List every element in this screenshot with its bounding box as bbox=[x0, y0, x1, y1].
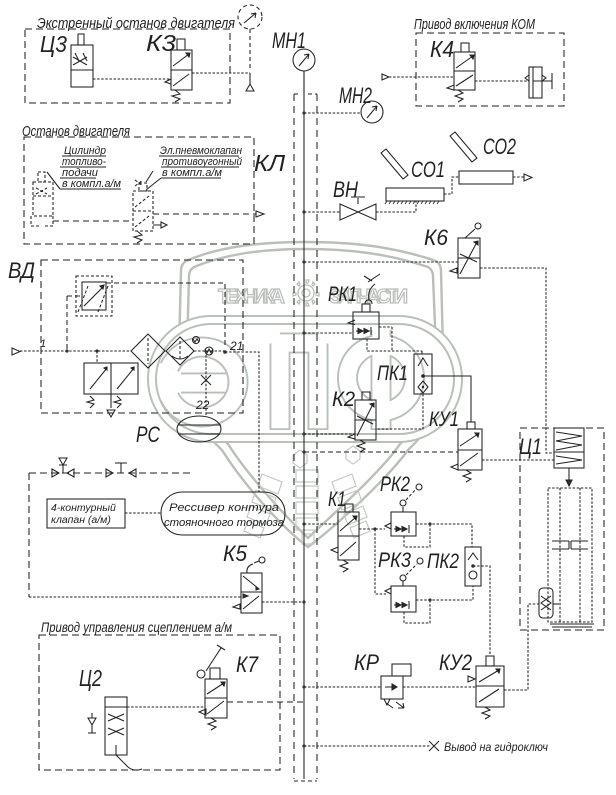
wire supply to К5 bbox=[29, 596, 241, 598]
svg-text:Ц3: Ц3 bbox=[40, 31, 67, 57]
gauge МН1 bbox=[293, 49, 315, 93]
svg-text:Ц1: Ц1 bbox=[519, 434, 542, 459]
valve ВН bbox=[340, 197, 376, 220]
wire ВН to СО1 to СО2 output bbox=[376, 174, 532, 212]
diaphragm valve in Ц1 bbox=[539, 588, 559, 618]
wire КЛ to К1 bbox=[302, 522, 338, 525]
cylinder Ц3 bbox=[71, 34, 93, 87]
valve КУ2 bbox=[468, 656, 504, 719]
watermark band bbox=[148, 316, 462, 442]
svg-text:МН1: МН1 bbox=[272, 28, 306, 53]
wire input to filter bbox=[20, 349, 131, 352]
wire К6 to right drop bbox=[480, 268, 554, 453]
svg-text:РК1: РК1 bbox=[328, 283, 357, 306]
svg-text:Вывод на гидроключ: Вывод на гидроключ bbox=[444, 740, 548, 754]
energy accumulator in Ц1 bbox=[554, 428, 584, 486]
svg-text:РС: РС bbox=[136, 422, 160, 447]
block 4-контурный клапан bbox=[47, 499, 125, 528]
svg-text:РК2: РК2 bbox=[380, 473, 410, 496]
svg-text:РК3: РК3 bbox=[378, 549, 411, 572]
valve К2 bbox=[348, 392, 376, 452]
svg-text:СО1: СО1 bbox=[411, 157, 445, 182]
gauge МН2 bbox=[361, 101, 383, 123]
watermark wheat ears bbox=[244, 446, 370, 544]
filter 2 with drain bbox=[166, 337, 200, 366]
watermark ЭПФ letters bbox=[169, 328, 414, 430]
wire cylinder to valve (dashed) bbox=[53, 220, 133, 222]
wire КЛ to К2 bbox=[302, 432, 355, 435]
box ВД (compressor unit) bbox=[41, 260, 243, 413]
box Ц1 dashed bbox=[520, 428, 604, 630]
receiver РС tank bbox=[177, 416, 221, 442]
svg-text:ТЕХНИКА: ТЕХНИКА bbox=[218, 286, 285, 308]
wire КЛ to К6 bbox=[302, 260, 458, 263]
wire line to node 21 and corner down bbox=[194, 351, 259, 492]
svg-text:ВД: ВД bbox=[8, 258, 35, 283]
svg-text:Останов двигателя: Останов двигателя bbox=[22, 124, 130, 140]
wire ПК1 to К2 bbox=[376, 394, 423, 429]
svg-text:КУ2: КУ2 bbox=[439, 650, 472, 675]
wire РК2 output to ПК2 with loop bbox=[404, 522, 472, 547]
separator СО2 bbox=[450, 132, 513, 184]
valve К3 bbox=[165, 39, 192, 102]
wire К3 to gauge stem bbox=[192, 72, 250, 74]
separator СО1 bbox=[381, 149, 444, 204]
node 1 input arrow bbox=[12, 338, 46, 355]
pipeline КЛ center line bbox=[294, 71, 317, 781]
valve эл.пневмоклапан bbox=[133, 180, 153, 231]
drain funnel at Ц2 bbox=[88, 713, 96, 733]
watermark gear bbox=[293, 280, 319, 306]
valve К5 bbox=[233, 557, 265, 613]
svg-text:ВН: ВН bbox=[333, 177, 358, 202]
check valve ПК1 bbox=[414, 354, 432, 394]
wire КУ2 to Ц1 valve bbox=[504, 604, 539, 690]
svg-text:клапан (а/м): клапан (а/м) bbox=[51, 514, 111, 526]
valve РК1 bbox=[348, 274, 422, 351]
wire РК3 output to ПК2 with loop bbox=[404, 586, 473, 623]
compressor valve in ВД bbox=[84, 351, 138, 417]
svg-text:Привод включения КОМ: Привод включения КОМ bbox=[414, 17, 536, 33]
svg-text:СО2: СО2 bbox=[483, 134, 516, 159]
watermark shield outer bbox=[179, 242, 443, 547]
svg-text:Ц2: Ц2 bbox=[79, 665, 102, 691]
wire Ц3 to К3 bbox=[93, 78, 171, 80]
brake chamber in Ц1 bbox=[548, 488, 592, 622]
receiver stadium Рессивер контура bbox=[161, 492, 285, 535]
valve РК2 bbox=[385, 484, 422, 536]
regulator КР bbox=[381, 664, 411, 708]
wire К7 to КЛ (dashed) bbox=[227, 701, 304, 703]
svg-text:4-контурный: 4-контурный bbox=[51, 502, 116, 514]
watermark ТЕХНИКА ЗАПЧАСТИ bbox=[218, 286, 408, 308]
svg-text:22: 22 bbox=[195, 398, 210, 412]
wire block to receiver stadium bbox=[125, 512, 161, 514]
wire К5 to КЛ bbox=[262, 600, 306, 603]
cylinder Ц2 bbox=[105, 697, 142, 770]
wire К4 to cylinder КОМ bbox=[475, 80, 529, 82]
svg-text:К7: К7 bbox=[236, 652, 259, 677]
wire ПК1 branch to КУ1 pilot bbox=[423, 376, 471, 422]
valve К4 bbox=[447, 43, 475, 102]
svg-text:1: 1 bbox=[40, 338, 46, 350]
svg-text:К3: К3 bbox=[146, 30, 176, 56]
wire РК1 to ПК1 bbox=[421, 351, 423, 354]
wire Ц2 to К7 bbox=[127, 706, 205, 708]
svg-text:КЛ: КЛ bbox=[254, 150, 285, 176]
svg-text:Привод управления сцеплением а: Привод управления сцеплением а/м bbox=[41, 619, 232, 635]
wire КЛ to РК1 bbox=[302, 331, 353, 334]
svg-text:К5: К5 bbox=[223, 541, 248, 566]
cylinder fuel (dashed small) bbox=[31, 172, 53, 226]
wire КУ1 to Ц1 bbox=[482, 459, 554, 461]
callout Цилиндр топливоподачи bbox=[62, 145, 121, 190]
cylinder КОМ bbox=[525, 67, 552, 98]
box Экстренный останов двигателя bbox=[25, 29, 230, 103]
svg-text:Экстренный останов двигателя: Экстренный останов двигателя bbox=[37, 16, 235, 32]
svg-text:К4: К4 bbox=[430, 36, 454, 62]
box Привод управления сцеплением bbox=[39, 635, 280, 770]
valve К6 bbox=[450, 223, 481, 278]
valve К7 bbox=[197, 645, 227, 730]
svg-text:КР: КР bbox=[354, 650, 379, 675]
box 4-контурный dashed bbox=[29, 473, 190, 597]
svg-text:21: 21 bbox=[229, 339, 243, 353]
protection valve symbol 2 bbox=[106, 463, 136, 477]
svg-text:ПК2: ПК2 bbox=[427, 550, 459, 573]
svg-text:К6: К6 bbox=[424, 225, 449, 250]
wire КЛ to КР and КУ2 bbox=[302, 685, 476, 688]
wire regulator down to main line bbox=[67, 296, 82, 351]
wire node to РС tank with X bbox=[195, 355, 211, 417]
wire К1 to РК2 and РК3 branch bbox=[359, 527, 386, 594]
wire КЛ to МН2 bbox=[304, 112, 361, 114]
svg-text:К1: К1 bbox=[328, 488, 346, 511]
callout Эл.пневмоклапан bbox=[160, 145, 242, 179]
svg-text:в компл.а/м: в компл.а/м bbox=[62, 178, 121, 190]
pilot wire regulator to node 21 bbox=[106, 283, 225, 345]
wire ПК2 to КУ2 pilot bbox=[473, 566, 490, 656]
wire valve to box edge with arrow bbox=[153, 211, 264, 217]
valve К1 bbox=[331, 504, 359, 572]
svg-text:ПК1: ПК1 bbox=[377, 362, 408, 385]
svg-text:КУ1: КУ1 bbox=[429, 408, 459, 431]
gauge (dashed) top bbox=[238, 5, 262, 70]
svg-text:стояночного тормоза: стояночного тормоза bbox=[164, 517, 284, 529]
box Останов двигателя bbox=[24, 137, 254, 244]
node 21 bbox=[223, 339, 243, 354]
wire КЛ to ВН bbox=[302, 210, 340, 213]
drain symbol circle-W bbox=[205, 347, 213, 355]
check valve ПК2 bbox=[465, 547, 481, 586]
svg-text:МН2: МН2 bbox=[339, 83, 372, 108]
box Привод включения КОМ bbox=[416, 33, 564, 106]
svg-text:К2: К2 bbox=[332, 388, 355, 411]
pressure regulator in ВД bbox=[76, 276, 112, 316]
svg-text:Рессивер контура: Рессивер контура bbox=[169, 502, 279, 514]
filter 1 bbox=[131, 334, 165, 368]
protection valve symbol 1 bbox=[52, 458, 74, 477]
valve РК3 bbox=[385, 558, 423, 612]
wire КЛ to гидроключ output bbox=[302, 741, 439, 751]
wire КЛ to КУ1 bbox=[302, 450, 458, 453]
wire input to К4 bbox=[382, 74, 454, 80]
svg-text:в компл.а/м: в компл.а/м bbox=[162, 167, 222, 179]
valve КУ1 bbox=[451, 422, 482, 482]
